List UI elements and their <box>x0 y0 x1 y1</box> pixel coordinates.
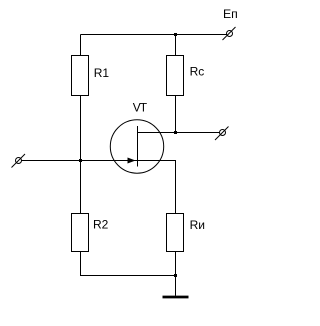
wire top rail <box>81 34 227 36</box>
wire input to gate <box>22 160 138 162</box>
resistor R1 <box>72 56 89 96</box>
wire top rail to Rc <box>175 35 177 56</box>
resistor R2 <box>72 214 89 252</box>
transistor VT gate arrow <box>128 158 136 164</box>
svg-text:Rи: Rи <box>190 218 205 232</box>
resistor Ri <box>167 214 184 252</box>
resistor Rc <box>167 56 184 96</box>
wire source to Ri <box>138 161 176 214</box>
ground <box>163 296 189 299</box>
output terminal <box>215 127 229 141</box>
wire R1 bottom to gate node to R2 <box>80 96 82 214</box>
wire top-left corner to R1 <box>80 35 82 56</box>
svg-text:VT: VT <box>133 101 148 115</box>
power terminal En <box>223 27 236 40</box>
node bottom junction <box>174 274 177 277</box>
svg-text:R2: R2 <box>93 218 109 232</box>
wire R2 bottom to ground rail <box>81 252 176 276</box>
transistor VT channel bar <box>137 126 139 167</box>
transistor VT body circle <box>110 120 163 173</box>
wire drain to output <box>138 132 220 134</box>
wire Rc bottom to drain node <box>175 96 177 133</box>
svg-text:Еп: Еп <box>223 7 238 21</box>
input terminal <box>12 154 26 168</box>
node top rail / Rc junction <box>174 33 177 36</box>
svg-text:R1: R1 <box>94 66 110 80</box>
wire Ri bottom to ground <box>175 252 177 296</box>
svg-text:Rс: Rс <box>190 64 205 78</box>
node gate / divider junction <box>79 159 82 162</box>
node drain / output junction <box>174 131 177 134</box>
